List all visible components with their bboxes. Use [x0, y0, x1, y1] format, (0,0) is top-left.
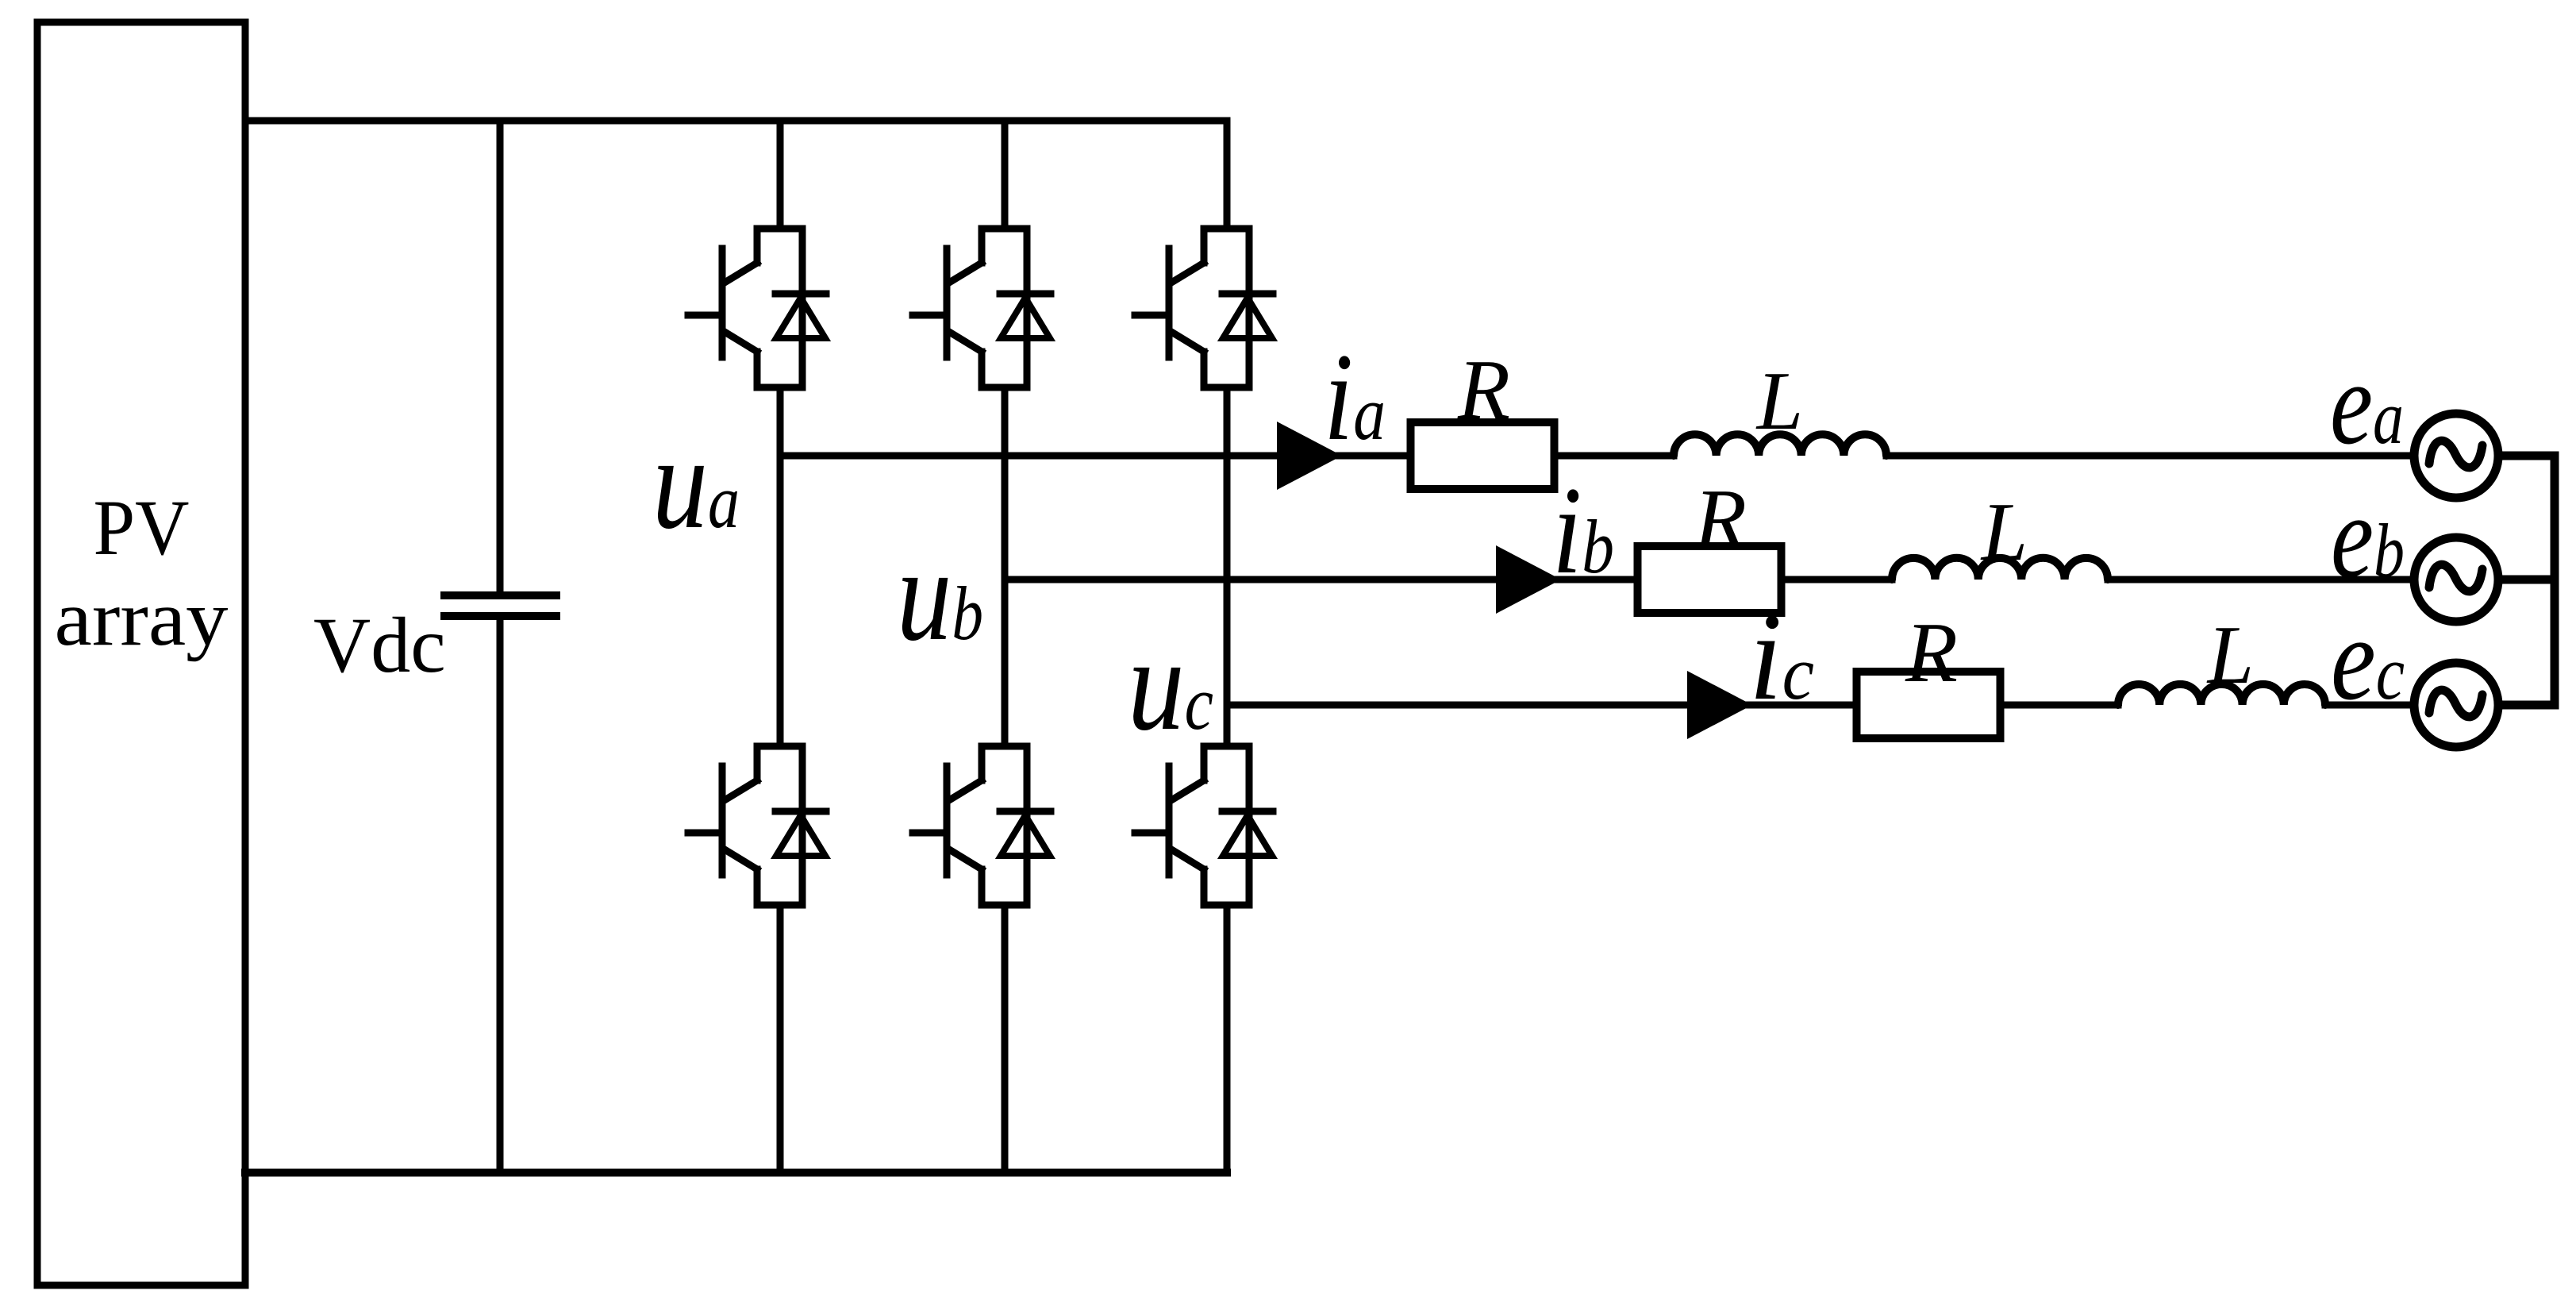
svg-text:ec: ec: [2331, 593, 2405, 725]
AC source ec: [2414, 663, 2498, 747]
lower IGBT leg c with freewheel diode: [1135, 746, 1273, 905]
upper IGBT leg a with freewheel diode: [688, 229, 826, 387]
leg a emitter wire (lower IGBT to bottom bus): [777, 905, 784, 1173]
svg-text:ub: ub: [897, 521, 983, 668]
svg-text:L: L: [1755, 354, 1803, 447]
upper IGBT leg b with freewheel diode: [913, 229, 1051, 387]
svg-text:R: R: [1694, 472, 1747, 567]
bottom DC bus wire: [245, 1169, 1227, 1177]
leg c emitter wire (lower IGBT to bottom bus): [1224, 905, 1231, 1173]
phase b current arrow: [1496, 545, 1561, 614]
svg-text:Vdc: Vdc: [313, 601, 446, 689]
wire source ea to right bus: [2498, 452, 2555, 460]
resistor R phase c: [1857, 672, 2001, 738]
svg-text:ua: ua: [652, 409, 740, 557]
svg-text:L: L: [1980, 485, 2028, 578]
svg-text:R: R: [1457, 343, 1510, 437]
leg b emitter wire (lower IGBT to bottom bus): [1002, 905, 1009, 1173]
svg-text:R: R: [1905, 606, 1958, 700]
svg-text:ib: ib: [1552, 461, 1614, 600]
leg a midpoint wire: [777, 387, 784, 746]
DC-link capacitor Vdc: [440, 591, 560, 599]
leg a collector wire (top bus to upper IGBT): [777, 121, 784, 229]
leg b collector wire (top bus to upper IGBT): [1002, 121, 1009, 229]
phase c wire: leg c to resistor: [1227, 702, 1858, 709]
wire resistor to inductor phase b: [1782, 576, 1892, 584]
capacitor top lead wire: [497, 121, 504, 595]
capacitor bottom lead wire: [497, 616, 504, 1173]
svg-text:ea: ea: [2330, 337, 2404, 469]
lower IGBT leg b with freewheel diode: [913, 746, 1051, 905]
right AC bus vertical wire: [2551, 456, 2559, 705]
phase a wire: leg a to resistor: [780, 453, 1410, 460]
AC source ea: [2414, 414, 2498, 498]
phase b wire: leg b to resistor: [1005, 576, 1638, 584]
phase a current arrow: [1277, 422, 1342, 490]
wire inductor to source eb: [2108, 576, 2414, 584]
svg-text:uc: uc: [1128, 610, 1213, 758]
wire source ec to right bus: [2498, 701, 2555, 710]
wire resistor to inductor phase c: [2000, 702, 2118, 709]
inductor L phase a: [1674, 434, 1886, 456]
leg c collector wire (top bus to upper IGBT): [1224, 121, 1231, 229]
wire inductor to source ec: [2325, 702, 2414, 709]
resistor R phase a: [1411, 422, 1555, 489]
inductor L phase c: [2118, 684, 2325, 705]
svg-text:PV: PV: [94, 483, 190, 572]
lower IGBT leg a with freewheel diode: [688, 746, 826, 905]
svg-text:eb: eb: [2331, 471, 2405, 603]
wire resistor to inductor phase a: [1555, 453, 1674, 460]
svg-text:array: array: [55, 574, 229, 662]
inductor L phase b: [1892, 558, 2108, 580]
upper IGBT leg c with freewheel diode: [1135, 229, 1273, 387]
leg b midpoint wire: [1002, 387, 1009, 746]
svg-text:ia: ia: [1324, 328, 1386, 467]
top DC bus wire: [245, 117, 1227, 125]
svg-text:L: L: [2206, 608, 2254, 701]
svg-text:ic: ic: [1749, 587, 1814, 726]
wire source eb to right bus: [2498, 576, 2555, 584]
AC source eb: [2414, 537, 2498, 622]
phase c current arrow: [1687, 671, 1752, 739]
PV array box: [37, 22, 245, 1285]
resistor R phase b: [1638, 546, 1782, 613]
leg c midpoint wire: [1224, 387, 1231, 746]
wire inductor to source ea: [1886, 453, 2414, 460]
